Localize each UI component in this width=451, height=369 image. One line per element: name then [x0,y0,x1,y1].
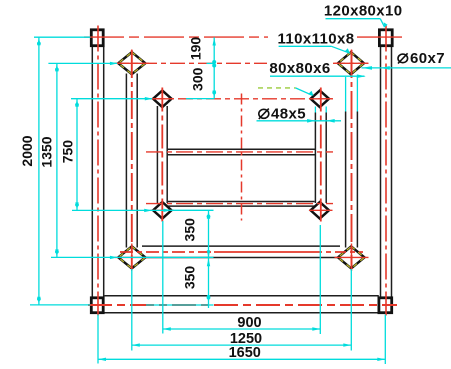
1350 dim line [56,63,58,257]
extension top 2000 [34,36,90,38]
svg-text:350: 350 [182,266,198,290]
cyan wall segments right big post [345,77,347,112]
big diamond top-left [118,52,145,74]
green dashed leader [258,87,296,89]
750 arrows [75,99,78,107]
900 dim line [163,328,320,330]
left inner post centerline [161,88,163,222]
small diamond top-left [153,91,171,108]
d60 circle [398,54,408,63]
caps [91,30,392,313]
right big post walls (black part) [345,112,347,248]
left outer post centerline [97,26,99,316]
top-left cap [91,30,103,46]
80x80x6 arrow [357,74,366,78]
svg-text:110x110x8: 110x110x8 [277,30,354,47]
central vertical centerline [241,94,243,221]
big-diamond row centerline y=63.3 [114,62,267,64]
svg-text:120x80x10: 120x80x10 [324,2,403,19]
rail 2 top/bottom edges [168,201,315,203]
diameter symbols [259,53,408,119]
bottom extension verticals [97,315,99,364]
extension bottom 2000 [30,304,90,306]
d48x5 arrow [307,119,316,123]
svg-text:60x7: 60x7 [410,50,445,67]
svg-text:750: 750 [60,140,76,164]
diamonds [118,52,364,268]
yellow dashes on big diamonds [118,52,364,268]
small diamond bottom-right [311,202,329,219]
rail1 centerline [146,151,333,153]
left big post centerline [131,50,133,269]
extension stub at 300-dim bottom [186,98,214,100]
750 dim line [76,99,78,211]
red vertical post centerlines [98,26,386,316]
d48 circle [259,109,269,118]
bottom member edges [105,295,379,297]
right big post centerline [351,50,353,269]
red crosses at diamonds [115,50,369,272]
svg-text:80x80x6: 80x80x6 [269,60,330,77]
190/300 dim line [213,37,215,98]
right outer post centerline [385,26,387,316]
1650 arrows [98,358,106,361]
1650 dim line [98,358,385,360]
bottom-left cap [91,298,103,313]
d48x5 underline [257,120,342,122]
900 arrows [163,327,171,330]
right outer post walls [380,46,382,298]
mid band edges [142,245,340,247]
d60 leader line [362,67,451,69]
extension stub at chain top (y=210.3) [172,209,214,211]
svg-text:48x5: 48x5 [271,106,306,123]
big diamond bottom-right [338,246,364,268]
left outer post walls [91,46,93,298]
80x80x6 underline leader [270,75,365,77]
svg-text:900: 900 [237,315,261,331]
svg-text:1350: 1350 [38,136,54,167]
top row centerline y=37 [84,36,268,38]
120x80x10 underline [326,18,381,20]
svg-text:1650: 1650 [229,345,261,361]
rail 1 top/bottom edges [167,148,315,150]
top-right cap [379,30,392,46]
extension top 750 [71,98,152,100]
2000 arrows [37,37,40,45]
cyan wall segments right inner post [314,107,316,113]
190/300 line arrows and dots [213,38,216,46]
350/350 dim line [208,211,210,308]
110x110x8 underline [279,45,332,47]
extension arrows into diamonds [110,62,118,65]
extension bottom 750 [72,209,172,211]
d60 leader arrows [362,66,372,70]
big diamond bottom-left [118,246,145,268]
svg-text:350: 350 [182,218,198,242]
350 chain arrows [207,211,210,219]
1250 arrows [132,343,140,346]
1250 dim line [132,344,351,346]
extension top 1350 [48,62,117,64]
cyan arrows [37,22,390,361]
left inner post walls [156,106,158,203]
band centerline [120,251,214,253]
big diamond top-right [338,52,364,74]
bottom member centerline [88,304,397,306]
right inner post walls (black part) [314,113,316,204]
small diamond bottom-left [153,202,171,219]
1350 arrows [55,63,58,71]
svg-text:190: 190 [188,37,204,61]
extension bottom 1350 [51,256,214,258]
svg-text:300: 300 [190,67,206,91]
leader to small diamond (cyan part) [296,88,313,95]
extension stub at chain bottom [146,304,214,306]
small diamond top-right [311,91,329,108]
bottom-right cap [379,298,392,313]
rail2 centerline [146,203,333,205]
2000 dim line [38,37,40,304]
small-diamond row centerline y=98.8 [150,98,336,100]
label leader arrows [384,22,388,27]
svg-text:2000: 2000 [19,135,35,166]
left big post walls [125,74,127,248]
right inner post centerline [320,88,322,222]
